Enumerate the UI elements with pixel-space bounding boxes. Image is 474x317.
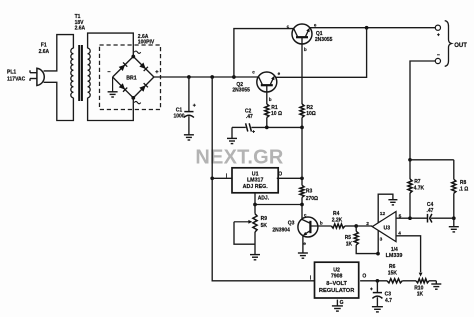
- wire R2 node to output node: [301, 127, 303, 178]
- svg-text:C1: C1: [176, 107, 183, 113]
- node R7 top: [408, 158, 412, 162]
- brace OUT: [445, 21, 452, 67]
- bridge rectifier BR1: [100, 45, 161, 110]
- wire Q1 base: [301, 44, 303, 104]
- svg-text:117VAC: 117VAC: [7, 76, 26, 82]
- wire secondary bottom: [88, 98, 134, 121]
- svg-text:LM339: LM339: [386, 253, 403, 259]
- terminal OUT-: [435, 58, 440, 63]
- wire primary top: [44, 35, 74, 71]
- node down-feed tap: [210, 75, 214, 79]
- svg-text:R3: R3: [306, 188, 313, 194]
- wire OUT- feed: [410, 61, 435, 160]
- svg-text:R6: R6: [389, 264, 396, 270]
- svg-text:b: b: [269, 97, 272, 102]
- svg-text:c: c: [304, 213, 307, 218]
- node R1 bottom: [265, 126, 269, 130]
- svg-text:Q3: Q3: [288, 221, 295, 227]
- svg-text:2N3055: 2N3055: [232, 88, 250, 94]
- wire Q1 collector riser: [234, 29, 294, 77]
- svg-text:10Ω: 10Ω: [306, 111, 316, 117]
- svg-text:10 Ω: 10 Ω: [271, 111, 282, 117]
- plug PL1: [37, 68, 44, 85]
- ground C1: [184, 134, 194, 136]
- diode D1 bridge top-left: [119, 65, 125, 71]
- svg-text:.47: .47: [246, 114, 253, 120]
- svg-text:2N3904: 2N3904: [272, 228, 290, 234]
- node R4/R5: [354, 224, 358, 228]
- ground R8: [453, 218, 455, 226]
- svg-text:4.7K: 4.7K: [414, 185, 425, 191]
- ground U3 pin12: [388, 199, 397, 201]
- node R3 bottom: [300, 203, 304, 207]
- svg-text:OUT: OUT: [454, 43, 467, 49]
- svg-text:BR1: BR1: [126, 75, 136, 81]
- wire Q2 emitter link: [276, 28, 367, 78]
- wire Q1 emitter to OUT+: [310, 27, 435, 29]
- svg-text:O: O: [278, 172, 282, 178]
- svg-text:12: 12: [380, 211, 386, 217]
- node C1 tap: [187, 75, 191, 79]
- wire ADJ row: [255, 204, 302, 206]
- wire U3 pin3: [377, 230, 379, 253]
- svg-text:c: c: [287, 24, 290, 29]
- svg-text:ADJ.: ADJ.: [258, 196, 270, 202]
- svg-text:1/4: 1/4: [391, 247, 398, 253]
- resistor R4 2.2K: [331, 224, 344, 228]
- svg-text:R5: R5: [345, 235, 352, 241]
- node bridge top vertex: [131, 55, 135, 59]
- wire U3 pin4 to R10 wiper: [396, 236, 421, 272]
- svg-text:15K: 15K: [388, 270, 398, 276]
- wire Q3 emitter: [302, 236, 304, 253]
- svg-text:3: 3: [380, 237, 383, 243]
- svg-text:e: e: [314, 22, 317, 27]
- svg-text:ADJ REG.: ADJ REG.: [243, 184, 269, 190]
- node U1 input tap: [210, 176, 214, 180]
- svg-text:7908: 7908: [331, 273, 343, 279]
- svg-text:R8: R8: [460, 180, 467, 186]
- svg-text:NEXT.GR: NEXT.GR: [195, 147, 283, 169]
- node R2 bottom: [300, 126, 304, 130]
- resistor R5 1K: [355, 226, 357, 231]
- resistor R6 15K: [387, 279, 402, 283]
- capacitor C1: [188, 77, 190, 112]
- svg-text:R7: R7: [414, 179, 421, 185]
- op-amp U3 LM339: [372, 212, 396, 242]
- ground C2: [227, 137, 237, 139]
- svg-text:R9: R9: [261, 216, 268, 222]
- svg-text:REGULATOR: REGULATOR: [319, 288, 355, 294]
- svg-text:R2: R2: [307, 105, 314, 111]
- wire U3 pin12 to ground: [378, 194, 393, 223]
- capacitor C3 4.7: [376, 281, 378, 293]
- svg-text:2N3055: 2N3055: [315, 37, 333, 43]
- transistor Q1 2N3055: [292, 24, 312, 44]
- wire to U3 inverting input: [356, 225, 372, 227]
- resistor R8 .1 ohm: [453, 160, 455, 180]
- ground U2: [332, 305, 343, 307]
- svg-text:2.6A: 2.6A: [75, 26, 86, 32]
- svg-text:2: 2: [366, 221, 369, 227]
- node R5 bottom: [376, 252, 380, 256]
- svg-text:b: b: [304, 47, 307, 52]
- svg-text:8–VOLT: 8–VOLT: [326, 281, 347, 287]
- svg-text:LM317: LM317: [247, 178, 264, 184]
- regulator U1 LM317: [232, 168, 278, 193]
- wire Q3 collector: [301, 205, 303, 220]
- wire C2 to ground: [231, 127, 233, 138]
- svg-text:b: b: [320, 221, 323, 226]
- wire secondary top: [88, 33, 134, 56]
- svg-text:5K: 5K: [261, 223, 268, 229]
- svg-text:R1: R1: [271, 105, 278, 111]
- wire main down-feed: [212, 77, 315, 281]
- wire top tie R7/R8: [410, 159, 454, 161]
- svg-text:R4: R4: [333, 211, 340, 217]
- node emitter junction: [365, 26, 369, 30]
- svg-text:1K: 1K: [417, 292, 424, 298]
- wire U1 input: [212, 177, 232, 179]
- wire U2 ground pin: [336, 300, 338, 306]
- svg-text:.47: .47: [427, 208, 434, 214]
- resistor R2 10 ohm: [300, 104, 304, 118]
- svg-text:1K: 1K: [346, 242, 353, 248]
- node bridge bottom vertex: [131, 96, 135, 100]
- node R7 bottom / pin5: [408, 216, 412, 220]
- svg-text:2.6A: 2.6A: [39, 49, 50, 55]
- diode D2 bridge top-right: [139, 63, 145, 69]
- node U1 output: [300, 176, 304, 180]
- wire U1 output: [277, 177, 302, 179]
- capacitor C4 .47: [410, 217, 427, 219]
- ground bridge negative: [112, 77, 114, 92]
- resistor R7 4.7K: [409, 160, 411, 179]
- ground C3: [372, 306, 383, 308]
- node C3 tap: [376, 279, 380, 283]
- resistor R1 10 ohm: [266, 92, 268, 104]
- diode D3 bridge bottom-left: [119, 83, 125, 89]
- ground R9: [250, 254, 260, 256]
- wire base node row: [251, 126, 302, 128]
- svg-text:4.7: 4.7: [385, 298, 392, 304]
- wire ADJ pin: [254, 193, 256, 205]
- potentiometer R9 5K: [254, 205, 256, 214]
- regulator U2 7908: [315, 262, 359, 298]
- wire positive rail: [154, 76, 259, 78]
- svg-text:PL1: PL1: [7, 70, 16, 76]
- node ADJ: [253, 203, 257, 207]
- svg-text:C4: C4: [427, 202, 434, 208]
- svg-text:1000: 1000: [173, 114, 184, 120]
- svg-text:C3: C3: [385, 292, 392, 298]
- terminal OUT+: [435, 25, 440, 30]
- wire U3 pin5: [396, 217, 410, 219]
- svg-text:100PIV: 100PIV: [138, 40, 155, 46]
- ground Q3 emitter: [298, 252, 308, 254]
- svg-text:c: c: [252, 69, 255, 74]
- svg-text:.1 Ω: .1 Ω: [459, 186, 469, 192]
- node R8 bottom: [452, 216, 456, 220]
- wire U2 output row: [360, 280, 387, 282]
- svg-text:270Ω: 270Ω: [306, 196, 318, 202]
- svg-text:e: e: [278, 71, 281, 76]
- resistor R3 270 ohm: [301, 178, 303, 185]
- svg-text:2.2K: 2.2K: [332, 218, 343, 224]
- transistor Q3 2N3904: [298, 217, 318, 237]
- ground R10: [435, 281, 437, 284]
- diode D4 bridge bottom-right: [139, 85, 145, 91]
- potentiometer R10 1K: [402, 280, 416, 282]
- capacitor C2 .47: [232, 126, 246, 128]
- svg-text:O: O: [362, 274, 366, 280]
- transformer T1: [71, 48, 74, 98]
- node Q1 collector tap: [232, 75, 236, 79]
- transistor Q2 2N3055: [257, 72, 277, 92]
- wire primary bottom: [44, 82, 74, 120]
- wire Q3 base: [310, 225, 331, 227]
- svg-text:e: e: [303, 241, 306, 246]
- svg-text:F1: F1: [41, 42, 47, 48]
- svg-text:U3: U3: [383, 225, 390, 231]
